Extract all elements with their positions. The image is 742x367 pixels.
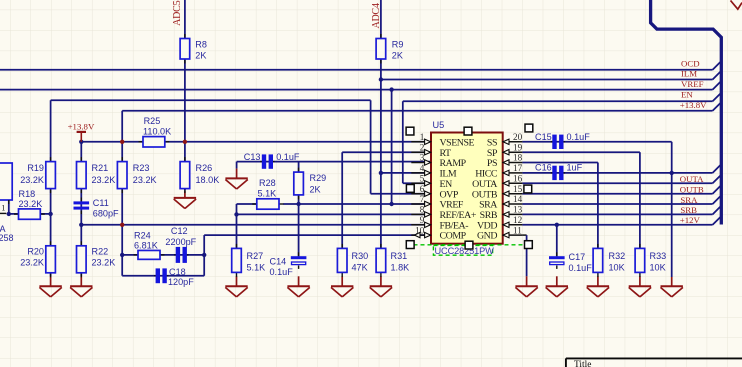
resistor R22 (80, 241, 82, 246)
resistor R27 (236, 244, 238, 249)
svg-text:OUTA: OUTA (680, 174, 704, 184)
wire OCD row (0, 69, 713, 71)
ground U5 GND pin (526, 276, 528, 286)
svg-text:VSENSE: VSENSE (440, 137, 475, 148)
svg-text:SRB: SRB (480, 210, 498, 221)
svg-text:UCC28251PW: UCC28251PW (435, 246, 495, 256)
svg-text:R18: R18 (19, 189, 36, 199)
svg-text:R31: R31 (391, 251, 408, 261)
junction R23/pin9 row (120, 223, 124, 227)
junction VDD/C17 (555, 223, 559, 227)
junction VREF row (389, 87, 393, 91)
ground R22 (80, 276, 82, 286)
svg-text:0.1uF: 0.1uF (270, 267, 294, 277)
resistor R26 (184, 157, 186, 162)
capacitor C11 (80, 198, 82, 202)
svg-text:R22: R22 (92, 246, 109, 256)
svg-text:23.2K: 23.2K (92, 175, 116, 185)
svg-text:R25: R25 (144, 116, 161, 126)
svg-text:C17: C17 (569, 252, 586, 262)
svg-text:C14: C14 (270, 257, 287, 267)
bus main (651, 0, 722, 225)
svg-text:23.2K: 23.2K (19, 199, 43, 209)
wire HICC row (522, 172, 712, 174)
resistor R18 (14, 213, 19, 215)
svg-text:REF/EA+: REF/EA+ (440, 210, 477, 221)
svg-text:10: 10 (415, 225, 425, 235)
svg-text:17: 17 (513, 163, 523, 173)
svg-text:2: 2 (420, 142, 425, 152)
ground C14 (298, 276, 300, 286)
wire R21 vertical (80, 142, 82, 276)
capacitor C12 (174, 254, 178, 256)
wire R32 vertical (597, 163, 599, 249)
resistor R25 (139, 141, 144, 143)
wire ILM pin4 row (381, 172, 431, 174)
wire SS/C15 row (522, 141, 671, 143)
svg-text:12: 12 (513, 215, 523, 225)
wire C17 vertical (556, 225, 558, 257)
svg-text:VREF: VREF (440, 200, 464, 211)
svg-text:Title: Title (574, 360, 591, 367)
junction R28/pin8 row (234, 212, 238, 216)
resistor R21 (80, 157, 82, 162)
ground R26 (184, 191, 186, 198)
marker square top-left (406, 127, 414, 135)
connector left edge (0, 163, 12, 200)
junction C15/HICC row (670, 171, 674, 175)
marker square EN wire (406, 185, 414, 193)
svg-text:0.1uF: 0.1uF (567, 132, 591, 142)
svg-text:3: 3 (420, 153, 425, 163)
resistor R19 (50, 157, 52, 162)
svg-text:C12: C12 (171, 226, 188, 236)
resistor R32 (597, 244, 599, 249)
junction R29/pin7 row (296, 202, 300, 206)
svg-text:R26: R26 (196, 163, 213, 173)
svg-text:6: 6 (420, 184, 425, 194)
svg-text:5.1K: 5.1K (247, 262, 266, 272)
resistor R20 (50, 241, 52, 246)
wire R19 vertical (50, 100, 52, 276)
wire FB pin9 row (81, 224, 431, 226)
wire VDD/+12V row (522, 224, 712, 226)
wire R28/R27 vertical (236, 204, 238, 248)
wire RT vertical (341, 152, 343, 248)
wire RAMP row (237, 161, 431, 163)
svg-text:0.1uF: 0.1uF (569, 263, 593, 273)
svg-text:EN: EN (440, 179, 453, 190)
pin 1 left edge (0, 212, 6, 214)
svg-text:5: 5 (420, 174, 425, 184)
svg-text:R30: R30 (352, 251, 369, 261)
dashed compile line (414, 244, 525, 246)
resistor R23 (121, 157, 123, 162)
svg-text:2K: 2K (195, 51, 206, 61)
svg-text:ADC5: ADC5 (172, 0, 183, 26)
marker square OUTB pin (524, 185, 532, 193)
wire +13.8V row (122, 110, 712, 112)
svg-text:U5: U5 (433, 120, 445, 130)
junction R23/R24 row (120, 253, 124, 257)
svg-text:R32: R32 (609, 251, 626, 261)
junction +13.8V/R21/VSENSE (79, 140, 83, 144)
wire OVP row right (403, 100, 713, 102)
svg-text:SRA: SRA (680, 195, 698, 205)
resistor R33 (639, 244, 641, 249)
svg-text:0.1uF: 0.1uF (276, 152, 300, 162)
svg-text:R21: R21 (92, 163, 109, 173)
capacitor C14 (298, 252, 300, 256)
svg-text:HICC: HICC (475, 169, 498, 180)
svg-text:15: 15 (513, 184, 523, 194)
wire OVP pin5 row (403, 182, 431, 184)
junction ILM/pin4 (379, 171, 383, 175)
junction R18 left (7, 212, 11, 216)
ground R32 (597, 276, 599, 286)
svg-text:47K: 47K (352, 262, 368, 272)
svg-text:R23: R23 (133, 163, 150, 173)
wire EN vertical (370, 100, 372, 193)
resistor R24 (134, 254, 139, 256)
resistor R8 (184, 34, 186, 39)
wire left component pin drop (8, 200, 10, 214)
svg-text:VREF: VREF (681, 79, 704, 89)
svg-text:9: 9 (420, 215, 425, 225)
svg-text:SS: SS (487, 137, 497, 148)
resistor R9 (380, 34, 382, 39)
svg-text:+13.8V: +13.8V (680, 100, 707, 110)
ground C15 net (671, 277, 673, 286)
wire RT row (342, 151, 431, 153)
marker square top-right (525, 124, 533, 132)
wire OVP vertical (402, 101, 404, 183)
wire R18 row (9, 213, 51, 215)
svg-text:2K: 2K (310, 184, 321, 194)
wire EN row left (51, 99, 371, 101)
ground R20 (50, 276, 52, 286)
svg-text:23.2K: 23.2K (92, 258, 116, 268)
svg-text:R8: R8 (195, 40, 207, 50)
ground R27 (236, 276, 238, 286)
svg-text:10K: 10K (650, 262, 666, 272)
svg-text:COMP: COMP (440, 231, 467, 242)
wire ADC5/R8 vertical (184, 0, 186, 142)
svg-text:+12V: +12V (680, 215, 701, 225)
svg-text:PS: PS (487, 158, 497, 169)
svg-text:1: 1 (1, 203, 5, 213)
svg-text:8: 8 (420, 205, 425, 215)
wire R23 vertical (121, 111, 123, 276)
wire COMP vertical (203, 235, 205, 276)
svg-text:23.2K: 23.2K (133, 175, 157, 185)
ground R31 (380, 276, 382, 286)
wire VREF pin7 row (283, 203, 431, 205)
svg-text:16: 16 (513, 174, 523, 184)
svg-text:19: 19 (513, 142, 523, 152)
svg-text:R28: R28 (259, 178, 276, 188)
wire SRA row (522, 203, 712, 205)
marker square bottom-right (525, 241, 533, 249)
svg-text:2K: 2K (392, 51, 403, 61)
capacitor C13 (260, 161, 264, 163)
svg-text:23.2K: 23.2K (20, 175, 44, 185)
wire REF pin8 row (237, 213, 432, 215)
ground C13 (236, 169, 238, 179)
svg-text:1: 1 (420, 132, 425, 142)
svg-text:SRB: SRB (680, 205, 697, 215)
svg-text:R29: R29 (310, 173, 327, 183)
op-amp U5 body (431, 133, 503, 244)
wire EN pin6 row (371, 193, 431, 195)
capacitor C15 (551, 141, 555, 143)
wire R28 left corner (237, 203, 257, 205)
wire C15 corner vertical (671, 142, 673, 173)
junction C12/COMP vert (202, 253, 206, 257)
svg-text:RAMP: RAMP (440, 158, 467, 169)
resistor R31 (380, 244, 382, 249)
wire compensation mid row (122, 254, 204, 256)
junction R18/R19/R20 (48, 212, 52, 216)
svg-text:14: 14 (513, 194, 523, 204)
ground R30 (341, 276, 343, 286)
svg-text:6.81K: 6.81K (134, 240, 158, 250)
wire PS row (522, 162, 598, 164)
svg-text:R9: R9 (392, 40, 404, 50)
svg-text:R20: R20 (27, 246, 44, 256)
svg-text:OUTA: OUTA (472, 179, 498, 190)
svg-text:258: 258 (0, 233, 14, 243)
svg-text:ADC4: ADC4 (371, 3, 382, 29)
ground C17 (556, 276, 558, 286)
marker square bottom-center (465, 241, 473, 249)
wire OUTB row (522, 193, 712, 195)
svg-text:110.0K: 110.0K (143, 126, 171, 136)
ground R33 (639, 276, 641, 286)
svg-text:C11: C11 (93, 198, 109, 208)
svg-text:R33: R33 (650, 251, 667, 261)
svg-text:13: 13 (513, 205, 523, 215)
marker square top-center (464, 127, 472, 135)
wire ILM row (381, 79, 713, 81)
capacitor C18 (154, 275, 158, 277)
svg-text:C13: C13 (244, 152, 261, 162)
svg-text:7: 7 (420, 194, 425, 204)
svg-text:OCD: OCD (681, 58, 700, 68)
svg-text:18.0K: 18.0K (196, 175, 220, 185)
wire compensation bottom row (122, 275, 204, 277)
svg-text:R27: R27 (247, 251, 264, 261)
wire VREF vertical (391, 90, 393, 204)
junction R23/+13.8V (120, 140, 124, 144)
junction ILM/R9 (379, 77, 383, 81)
svg-text:18: 18 (513, 153, 523, 163)
svg-text:R24: R24 (134, 231, 151, 241)
wire VSENSE row (81, 141, 431, 143)
svg-text:SRA: SRA (479, 200, 498, 211)
capacitor C16 (551, 172, 555, 174)
svg-text:R19: R19 (27, 163, 44, 173)
wire VREF row (0, 89, 713, 91)
svg-text:GND: GND (477, 231, 497, 242)
svg-text:2200pF: 2200pF (165, 237, 196, 247)
svg-text:5.1K: 5.1K (258, 189, 277, 199)
svg-text:1.8K: 1.8K (391, 262, 410, 272)
svg-text:1uF: 1uF (567, 162, 583, 172)
svg-text:+13.8V: +13.8V (68, 121, 95, 131)
svg-text:120pF: 120pF (168, 277, 194, 287)
capacitor C17 (556, 252, 558, 256)
svg-text:C15: C15 (535, 132, 552, 142)
resistor R30 (341, 244, 343, 249)
corner red mark (731, 1, 742, 10)
wire RAMP gnd corner (236, 162, 238, 169)
junction VREF vert/pin7 row (389, 202, 393, 206)
svg-text:C18: C18 (169, 267, 186, 277)
wire ADC4/R9/ILM vertical (380, 0, 382, 248)
svg-text:10K: 10K (609, 262, 625, 272)
svg-text:20: 20 (513, 132, 523, 142)
wire R33 vertical (639, 152, 641, 248)
svg-text:ILM: ILM (681, 69, 697, 79)
wire SP row (522, 151, 640, 153)
wire COMP pin10 row (204, 234, 431, 236)
junction C11/R22/pin9 row (79, 223, 83, 227)
wire R29/C14 vertical (298, 162, 300, 257)
resistor R29 (298, 168, 300, 173)
marker square bottom-left (406, 241, 414, 249)
svg-text:ILM: ILM (440, 169, 457, 180)
dashed box UCC28251PW (433, 245, 492, 255)
svg-text:OUTB: OUTB (680, 184, 704, 194)
title block (566, 357, 742, 359)
svg-text:680pF: 680pF (93, 209, 119, 219)
svg-text:4: 4 (420, 163, 425, 173)
svg-text:C16: C16 (535, 162, 552, 172)
svg-text:EN: EN (681, 90, 693, 100)
svg-text:23.2K: 23.2K (20, 258, 44, 268)
wire GND pin11 bend (522, 234, 526, 236)
resistor R28 (252, 203, 256, 205)
junction VSENSE/R8/R26 (183, 140, 187, 144)
wire OUTA row (522, 182, 712, 184)
svg-text:11: 11 (513, 225, 522, 235)
wire SRB row (522, 213, 712, 215)
